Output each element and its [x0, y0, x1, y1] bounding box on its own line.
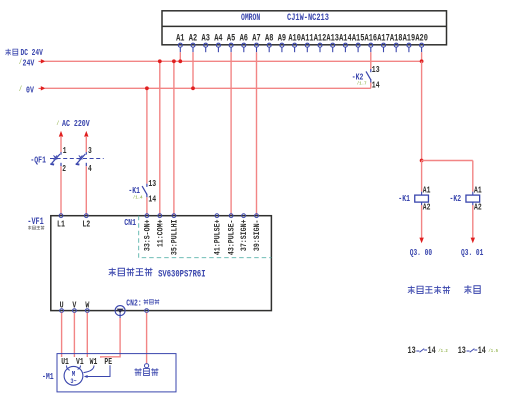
svg-text:3: 3 [88, 146, 92, 156]
label 编码器 (encoder in motor) [134, 368, 158, 376]
svg-text:-M1: -M1 [42, 372, 54, 382]
svg-text:13: 13 [408, 345, 416, 357]
terminal 39:SIGN- [255, 214, 259, 218]
wire A16 to K2 contact [370, 52, 372, 69]
svg-text:DC 24V: DC 24V [21, 49, 44, 58]
svg-text:/1.2: /1.2 [438, 348, 448, 355]
svg-text:35:PULLHI: 35:PULLHI [171, 220, 180, 256]
svg-text:14: 14 [478, 345, 486, 357]
terminal W [85, 309, 89, 313]
wire branch to K1 coil [421, 161, 423, 192]
wire 0V to K1 contact [146, 88, 148, 183]
svg-text:/1.5: /1.5 [488, 348, 498, 355]
svg-text:A12: A12 [314, 32, 327, 44]
svg-text:A11: A11 [301, 32, 314, 44]
svg-text:39:SIGN-: 39:SIGN- [253, 220, 262, 252]
svg-text:14: 14 [372, 80, 380, 90]
motor M1 box [57, 354, 176, 392]
svg-text:U: U [60, 300, 64, 310]
terminal V [73, 309, 77, 313]
wire K2 to 0V [370, 83, 372, 89]
svg-text:33:S-ON+: 33:S-ON+ [144, 219, 153, 251]
wire V to motor V1 [73, 313, 75, 357]
CN1 dashed boundary [139, 216, 272, 258]
wire QF1 pole1 to L1 [60, 166, 62, 216]
svg-text:L1: L1 [57, 220, 65, 230]
wire ground to motor PE [101, 318, 120, 358]
svg-text:A6: A6 [240, 32, 248, 44]
wire A5 to 43:PULSE- [230, 52, 232, 216]
wire A1 to 24V [179, 52, 181, 61]
svg-text:A3: A3 [202, 32, 210, 44]
svg-text:0V: 0V [26, 85, 34, 95]
wire 24V down to coil branch [421, 61, 423, 160]
svg-text:A1: A1 [423, 185, 431, 195]
svg-text:CN1: CN1 [124, 218, 136, 228]
terminal 41:PULSE+ [215, 214, 219, 218]
wire A20 to 24V junction [421, 52, 423, 61]
svg-text:/1.7: /1.7 [357, 80, 367, 87]
svg-text:V: V [72, 300, 76, 310]
svg-text:/: / [19, 85, 22, 93]
label 伺服驱动器 [109, 268, 153, 276]
svg-text:-K1: -K1 [398, 194, 410, 204]
svg-text:11:COM+: 11:COM+ [157, 219, 166, 247]
net label 外部DC 24V [5, 49, 17, 56]
svg-text:OMRON: OMRON [241, 12, 260, 24]
terminal 35:PULLHI [172, 214, 176, 218]
svg-text:Q3. 00: Q3. 00 [410, 249, 433, 258]
svg-text:A8: A8 [265, 32, 273, 44]
terminal CN2 encoder [145, 309, 149, 313]
terminal 37:SIGN+ [242, 214, 246, 218]
svg-text:37:SIGN+: 37:SIGN+ [241, 219, 250, 251]
svg-text:A2: A2 [423, 203, 431, 213]
svg-text:W: W [85, 300, 89, 310]
terminal 11:COM+ [158, 214, 162, 218]
svg-text:A4: A4 [214, 32, 222, 44]
svg-text:A19: A19 [403, 32, 416, 44]
svg-text:Q3. 01: Q3. 01 [461, 249, 484, 258]
wire A7 to 39:SIGN- [256, 52, 258, 216]
shield/ground connector on servo [115, 306, 125, 316]
svg-text:A13: A13 [326, 32, 339, 44]
svg-text:A14: A14 [339, 32, 352, 44]
svg-text:43:PULSE-: 43:PULSE- [228, 220, 237, 256]
svg-text:CN2:: CN2: [126, 299, 141, 309]
label 3轴电机 (tiny) [28, 226, 44, 230]
servo drive U2 SV630PS7R6I box [51, 216, 272, 311]
wire coil K1 to output [421, 205, 423, 238]
svg-text:A9: A9 [278, 32, 286, 44]
svg-text:A20: A20 [415, 32, 428, 44]
svg-text:1: 1 [63, 146, 67, 156]
wire AC to QF1 pole1 [60, 136, 62, 152]
terminal L1 [59, 214, 63, 218]
svg-text:13: 13 [372, 65, 380, 75]
svg-text:14: 14 [428, 345, 436, 357]
wire K1 contact to 33:S-ON [146, 197, 148, 216]
svg-text:A18: A18 [390, 32, 403, 44]
svg-text:A5: A5 [227, 32, 235, 44]
terminal U [60, 309, 64, 313]
contact K1 13-14 (NO) [142, 184, 147, 198]
svg-text:A16: A16 [365, 32, 378, 44]
label 伺服上使能 [408, 286, 450, 294]
wire 24V to 35:PULLHI [173, 61, 175, 215]
wire W to motor W1 [86, 313, 88, 357]
svg-text:A7: A7 [252, 32, 260, 44]
svg-text:AC 220V: AC 220V [62, 119, 90, 129]
contact K2 13-14 (NO) [366, 69, 371, 83]
wire branch to K2 coil [422, 160, 473, 162]
source arrow AC L [59, 131, 63, 137]
terminal L2 [84, 214, 88, 218]
svg-text:V1: V1 [76, 357, 84, 367]
svg-text:-K2: -K2 [450, 194, 462, 204]
PLC U1 OMRON CJ1W-NC213 box [162, 11, 447, 45]
svg-text:3~: 3~ [70, 378, 77, 386]
svg-text:L2: L2 [82, 220, 90, 230]
wire CN2 to encoder [146, 313, 148, 364]
svg-text:A1: A1 [176, 32, 184, 44]
wire 24V to 11:COM+ [159, 61, 161, 215]
svg-text:14: 14 [148, 195, 156, 205]
wire 0V rail [45, 87, 371, 89]
svg-text:4: 4 [88, 164, 92, 174]
PE bond to motor frame [85, 365, 110, 376]
svg-text:-QF1: -QF1 [30, 156, 46, 166]
wire A2 to 0V [192, 52, 194, 88]
svg-text:SV630PS7R6I: SV630PS7R6I [158, 268, 205, 280]
coil K1 [421, 192, 423, 195]
label 急停 [464, 285, 480, 294]
svg-text:41:PULSE+: 41:PULSE+ [214, 219, 223, 255]
svg-text:2: 2 [62, 164, 66, 174]
svg-text:A15: A15 [352, 32, 365, 44]
source arrow AC N [84, 131, 88, 137]
svg-text:13: 13 [458, 345, 466, 357]
svg-text:CJ1W-NC213: CJ1W-NC213 [287, 12, 329, 24]
svg-text:A2: A2 [189, 32, 197, 44]
svg-text:A17: A17 [377, 32, 390, 44]
terminal 33:S-ON+ [145, 214, 149, 218]
svg-text:13: 13 [148, 179, 156, 189]
svg-text:24V: 24V [23, 58, 35, 68]
svg-text:/1.4: /1.4 [133, 194, 143, 201]
svg-text:A1: A1 [474, 185, 482, 195]
motor phase leads [67, 366, 95, 373]
svg-text:PE: PE [104, 357, 112, 367]
wire AC to QF1 pole2 [85, 136, 87, 152]
motor M 3~ symbol [64, 366, 83, 385]
svg-text:A2: A2 [474, 203, 482, 213]
breaker QF1 [50, 152, 61, 166]
svg-text:A10: A10 [288, 32, 301, 44]
svg-text:/: / [57, 119, 60, 127]
wire U to motor U1 [61, 313, 63, 357]
coil K2 [472, 192, 474, 195]
terminal 43:PULSE- [229, 214, 233, 218]
wire QF1 pole2 to L2 [85, 166, 87, 216]
wire coil K2 to output [472, 205, 474, 238]
wire 24V rail [45, 60, 422, 62]
svg-text:U1: U1 [61, 357, 69, 367]
